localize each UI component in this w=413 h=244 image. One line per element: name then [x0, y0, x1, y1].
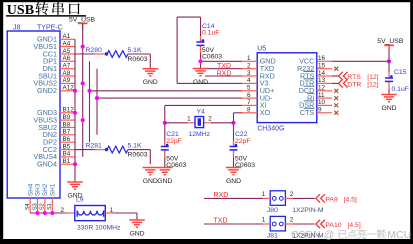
svg-text:TXD: TXD [217, 63, 231, 70]
svg-text:2: 2 [290, 216, 294, 223]
svg-text:1: 1 [262, 216, 266, 223]
svg-text:A8: A8 [63, 70, 71, 77]
svg-text:GND: GND [143, 79, 158, 86]
svg-text:CH340G: CH340G [257, 125, 284, 132]
svg-text:TXD: TXD [214, 218, 228, 225]
svg-text:SH2: SH2 [42, 183, 49, 196]
svg-text:R0603: R0603 [128, 56, 148, 63]
svg-text:J8: J8 [13, 25, 21, 32]
svg-text:1: 1 [187, 116, 191, 123]
svg-text:GND: GND [143, 178, 158, 185]
svg-text:B6: B6 [63, 136, 71, 143]
svg-text:B5: B5 [63, 143, 71, 150]
svg-text:7: 7 [247, 99, 251, 106]
svg-text:PA10: PA10 [325, 222, 341, 229]
svg-text:1X2PIN-M: 1X2PIN-M [292, 233, 324, 240]
svg-text:6: 6 [247, 92, 251, 99]
svg-text:A6: A6 [63, 55, 71, 62]
svg-text:TYPE-C: TYPE-C [37, 25, 63, 32]
svg-text:J80: J80 [267, 207, 278, 214]
svg-text:RXD: RXD [214, 192, 229, 199]
svg-text:10: 10 [318, 99, 326, 106]
svg-text:R280: R280 [86, 47, 102, 54]
svg-text:PA9: PA9 [325, 196, 338, 203]
svg-text:GND2: GND2 [37, 86, 57, 95]
svg-text:B4: B4 [63, 151, 71, 158]
svg-text:22pF: 22pF [235, 138, 251, 145]
svg-text:12: 12 [318, 85, 326, 92]
svg-text:14: 14 [318, 70, 326, 77]
svg-text:SH4: SH4 [27, 183, 34, 196]
svg-text:5V_USB: 5V_USB [69, 17, 96, 24]
svg-text:0.1uF: 0.1uF [202, 29, 219, 36]
svg-text:C15: C15 [394, 69, 407, 76]
svg-text:3: 3 [247, 70, 251, 77]
svg-text:GND: GND [193, 79, 208, 86]
svg-text:A7: A7 [63, 63, 71, 70]
svg-text:C22: C22 [235, 131, 248, 138]
svg-text:DTR: DTR [347, 81, 361, 88]
svg-text:[12]: [12] [367, 74, 378, 81]
svg-text:C21: C21 [166, 131, 179, 138]
svg-text:XO: XO [260, 108, 271, 117]
svg-text:5: 5 [247, 85, 251, 92]
svg-text:GND: GND [381, 105, 396, 112]
svg-text:B1: B1 [63, 158, 71, 165]
svg-text:R0603: R0603 [128, 151, 148, 158]
svg-text:[12]: [12] [367, 81, 378, 88]
svg-text:11: 11 [318, 92, 325, 99]
svg-text:GND: GND [129, 230, 144, 237]
svg-text:15: 15 [318, 63, 326, 70]
svg-text:12MHz: 12MHz [189, 131, 211, 138]
svg-text:5.1K: 5.1K [128, 142, 142, 149]
svg-text:S1: S1 [47, 203, 53, 210]
svg-text:S2: S2 [40, 203, 46, 210]
svg-text:22pF: 22pF [166, 138, 182, 145]
svg-text:[4,5]: [4,5] [344, 196, 357, 203]
svg-text:5V_USB: 5V_USB [377, 38, 404, 45]
svg-text:SH1: SH1 [50, 183, 57, 196]
svg-text:1: 1 [262, 191, 266, 198]
svg-text:5.1K: 5.1K [128, 47, 142, 54]
svg-text:16: 16 [318, 55, 326, 62]
svg-text:A4: A4 [63, 40, 71, 47]
svg-text:MCU: MCU [387, 229, 411, 241]
svg-text:[4,5]: [4,5] [348, 222, 361, 229]
svg-text:U5: U5 [257, 46, 266, 53]
svg-text:CTS: CTS [300, 108, 315, 117]
svg-text:B7: B7 [63, 129, 71, 136]
svg-text:A9: A9 [63, 77, 71, 84]
svg-text:4: 4 [247, 77, 251, 84]
svg-text:SH3: SH3 [35, 183, 42, 196]
svg-text:C0603: C0603 [202, 54, 222, 61]
svg-text:S3: S3 [32, 203, 38, 210]
svg-text:RTS: RTS [347, 74, 361, 81]
svg-text:RXD: RXD [217, 71, 232, 78]
svg-text:9: 9 [318, 107, 322, 114]
svg-text:GND4: GND4 [37, 160, 57, 169]
svg-text:2: 2 [247, 63, 251, 70]
svg-text:330R 100MHz: 330R 100MHz [77, 225, 121, 232]
svg-text:GND: GND [157, 178, 172, 185]
svg-text:B12: B12 [63, 107, 75, 114]
svg-text:1X2PIN-M: 1X2PIN-M [292, 207, 324, 214]
svg-text:A5: A5 [63, 48, 71, 55]
svg-text:S4: S4 [25, 203, 31, 210]
svg-text:0.1uF: 0.1uF [392, 86, 409, 93]
svg-text:L9: L9 [76, 196, 84, 203]
svg-text:A12: A12 [63, 85, 75, 92]
svg-text:GND: GND [226, 178, 241, 185]
svg-text:8: 8 [247, 107, 251, 114]
svg-text:B8: B8 [63, 121, 71, 128]
svg-text:R281: R281 [86, 142, 102, 149]
svg-text:2: 2 [290, 191, 294, 198]
svg-text:B9: B9 [63, 114, 71, 121]
svg-text:A1: A1 [63, 33, 71, 40]
svg-text:13: 13 [318, 77, 326, 84]
svg-text:Y4: Y4 [197, 109, 206, 116]
svg-text:2: 2 [208, 116, 212, 123]
svg-text:1: 1 [247, 55, 251, 62]
svg-text:2: 2 [61, 207, 65, 214]
svg-text:J81: J81 [267, 233, 278, 240]
